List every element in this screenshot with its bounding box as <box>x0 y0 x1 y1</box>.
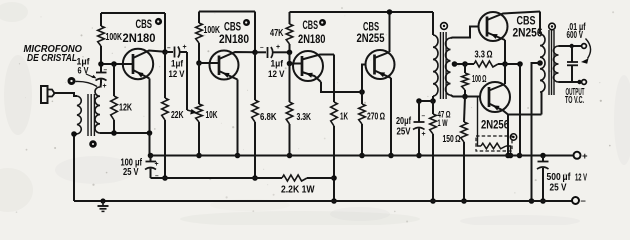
ground rail C <box>74 200 572 202</box>
svg-text:2N255: 2N255 <box>357 33 385 45</box>
svg-text:CBS: CBS <box>363 22 379 34</box>
junction dot 150ohm rail C <box>461 198 467 204</box>
svg-text:TO V.C.: TO V.C. <box>565 95 584 106</box>
resistor 3.3ohm <box>465 63 474 65</box>
base wire Q3 <box>290 63 303 65</box>
junction dot 100K-base <box>98 61 104 67</box>
junction dot pot bottom rail A <box>196 153 202 159</box>
junction dot 1K rail B <box>331 175 337 181</box>
collector wire Q4 up to rail <box>389 12 391 52</box>
emitter wire Q3 <box>321 82 362 92</box>
resistor 3.3K <box>289 64 291 103</box>
transistor Q3 2N180 <box>293 51 323 81</box>
resistor 2.2K 1W <box>282 175 307 181</box>
svg-text:+: + <box>183 44 187 51</box>
svg-text:1μf: 1μf <box>271 58 284 69</box>
collector wire Q5 to primary top <box>539 12 541 35</box>
resistor R1 100K <box>100 13 102 26</box>
junction dot CT rail C <box>529 198 535 204</box>
svg-text:100K: 100K <box>204 25 221 36</box>
svg-text:20μf: 20μf <box>396 116 411 127</box>
coupling capacitor 1uf 12V stage1-2 <box>165 51 173 53</box>
transistor Q2 2N180 <box>210 51 239 80</box>
junction dot 47ohm rail C <box>430 198 436 204</box>
svg-text:1K: 1K <box>340 112 348 123</box>
svg-text:–: – <box>167 45 171 52</box>
svg-text:22K: 22K <box>171 110 184 121</box>
svg-text:25 V: 25 V <box>123 167 139 178</box>
top rail stage 1 <box>101 12 165 14</box>
capacitor 1uf 6V input electrolytic <box>100 64 102 72</box>
transformer T2 primary winding <box>433 35 438 96</box>
wire secondary top to coupling cap <box>100 83 103 88</box>
capacitor 100uf 25V <box>150 156 152 162</box>
svg-text:2N256: 2N256 <box>513 28 543 40</box>
junction dot 3.3K rail A <box>287 153 293 159</box>
junction dot collector node Q1 <box>162 49 168 55</box>
transistor Q1 2N180 <box>123 49 153 79</box>
capacitor 20uf 25V <box>418 101 420 122</box>
wire T2 primary bottom <box>432 96 434 101</box>
resistor 47ohm 1W <box>432 101 434 114</box>
top rail stages 3-4 <box>290 11 434 13</box>
resistor 22K <box>164 52 166 98</box>
output transformer secondary winding <box>554 46 559 82</box>
junction dot Q6 emitter rail A <box>505 153 511 159</box>
svg-text:25V: 25V <box>397 127 411 138</box>
svg-text:2N180: 2N180 <box>219 34 249 46</box>
svg-text:12 V: 12 V <box>575 173 587 184</box>
junction dot base Q2 <box>196 60 202 66</box>
svg-text:600 V: 600 V <box>567 30 584 41</box>
junction dot 20uf rail A <box>416 153 422 159</box>
resistor 100K stage2 <box>198 12 200 24</box>
footnote marker stage1 <box>155 18 162 25</box>
footnote marker stage2 <box>243 19 250 26</box>
svg-text:+: + <box>103 83 107 90</box>
secondary bottom wire to output terminal <box>559 81 582 83</box>
transformer T1 secondary winding <box>95 87 100 133</box>
wire T2 secondary bottom to Q6 base <box>451 95 481 97</box>
coupling capacitor 1uf 12V stage2-3 <box>255 51 266 53</box>
wire to 20uf cap <box>419 100 433 102</box>
wire up to output transformer primary bottom <box>541 92 543 115</box>
svg-text:2N180: 2N180 <box>123 33 156 45</box>
junction dot 100ohm top <box>462 61 468 67</box>
svg-text:CBS: CBS <box>303 20 319 32</box>
capacitor 500uf 25V <box>540 153 546 159</box>
svg-text:1 W: 1 W <box>438 117 448 128</box>
wire emitter node down to rail A <box>149 133 151 156</box>
resistor 47K <box>289 12 291 24</box>
resistor 150ohm <box>464 97 465 123</box>
top rail stage 2 <box>199 11 255 13</box>
junction dot output CT <box>537 60 543 66</box>
emitter wire Q4 down <box>390 78 392 156</box>
output transformer core <box>548 30 550 95</box>
footnote marker thermistor <box>510 134 516 140</box>
capacitor .01uf 600V <box>571 46 573 62</box>
svg-text:150 Ω: 150 Ω <box>443 134 461 145</box>
junction dot rail A left end <box>148 153 154 159</box>
wire plug tip to transformer primary top <box>54 93 77 96</box>
junction dot x520 rail A <box>517 153 523 159</box>
center tap wire <box>455 63 466 65</box>
junction dot 270 rail A <box>359 153 365 159</box>
svg-text:10K: 10K <box>206 110 218 121</box>
wire output node y114 <box>508 114 542 116</box>
ground symbol <box>100 198 105 203</box>
junction dot cap node stage3 <box>287 50 293 56</box>
transistor Q5 2N256 <box>479 12 508 41</box>
transformer T1 primary winding <box>77 96 81 134</box>
svg-text:100K: 100K <box>106 32 123 43</box>
svg-text:25 V: 25 V <box>550 183 567 194</box>
collector wire Q6 up <box>504 64 506 84</box>
svg-text:CBS: CBS <box>136 19 153 31</box>
rail B right segment <box>307 177 334 179</box>
junction dot 500uf rail C <box>540 198 546 204</box>
svg-text:–: – <box>104 67 108 74</box>
footnote marker T2 <box>441 23 448 30</box>
junction dot collector Q2 <box>252 50 258 56</box>
svg-text:3.3 Ω: 3.3 Ω <box>475 50 493 61</box>
microphone jack plug <box>41 86 48 103</box>
thermistor in dashed box <box>476 136 512 151</box>
resistor 270 ohm <box>361 92 363 104</box>
junction dot T2 center tap <box>452 61 458 67</box>
junction dot Q5 emitter Q6 collector node <box>502 61 508 67</box>
svg-text:+: + <box>582 151 588 162</box>
resistor 12K <box>113 64 115 96</box>
transformer T2 core <box>440 32 442 99</box>
svg-text:12 V: 12 V <box>169 68 186 79</box>
wire T2 secondary top to Q5 base <box>451 27 479 39</box>
output transformer primary winding <box>540 34 545 92</box>
node marker below T1 secondary <box>89 140 97 148</box>
wire top rail to T2 primary <box>432 12 434 35</box>
svg-text:12K: 12K <box>119 103 132 114</box>
junction dot 1K rail C <box>331 198 337 204</box>
svg-text:–: – <box>422 113 426 120</box>
collector leg stage2 <box>254 12 256 53</box>
emitter wire Q5 down <box>504 40 506 64</box>
svg-text:+: + <box>422 131 426 138</box>
svg-text:+: + <box>155 161 159 168</box>
arrow from label to capacitor <box>586 39 591 59</box>
junction dot 6.8K rail B <box>252 175 258 181</box>
junction dot 22K on rail B <box>162 175 168 181</box>
junction dot Q2 emitter rail A <box>235 153 241 159</box>
junction dot thermistor rail A <box>508 153 514 159</box>
junction dot x520 <box>517 61 523 67</box>
svg-text:+: + <box>276 44 280 51</box>
wire cap to volume pot wiper <box>186 52 188 110</box>
junction dot emitter-bottom wire <box>147 130 153 136</box>
junction dot primary-bottom wire <box>71 131 77 137</box>
svg-text:CBS: CBS <box>224 22 241 34</box>
resistor 6.8K <box>254 52 256 100</box>
supply + terminal <box>574 152 581 159</box>
transformer T1 core <box>87 94 89 136</box>
wire node to x520 <box>505 63 520 65</box>
svg-text:270 Ω: 270 Ω <box>367 112 385 123</box>
svg-text:DE CRISTAL: DE CRISTAL <box>27 53 77 64</box>
emitter wire Q6 down to rail A <box>507 115 509 156</box>
junction dot base-12K <box>111 61 117 67</box>
svg-text:CBS: CBS <box>517 16 536 28</box>
junction dot base Q3 <box>287 61 293 67</box>
svg-text:47K: 47K <box>270 28 284 39</box>
collector leg x165 <box>164 13 166 52</box>
supply - terminal <box>572 197 579 204</box>
leader line from marker to cap node <box>76 81 98 86</box>
junction dot Q4 collector rail <box>387 9 393 15</box>
svg-text:–: – <box>581 195 586 206</box>
pot wiper arrow <box>187 110 192 111</box>
svg-text:6 V: 6 V <box>78 65 90 76</box>
transformer T2 secondary winding <box>446 38 451 95</box>
svg-text:2N180: 2N180 <box>298 34 326 46</box>
junction dot T2 primary bottom <box>430 98 436 104</box>
svg-text:500 μf: 500 μf <box>547 172 572 183</box>
junction dot 12K bottom <box>111 130 117 136</box>
secondary top wire to output terminal <box>559 45 582 47</box>
stage1 bottom wire <box>100 132 150 134</box>
junction dot 100ohm bottom <box>462 94 468 100</box>
base wire stage1 <box>101 63 133 65</box>
junction dot 20uf top <box>416 98 422 104</box>
svg-text:2.2K 1W: 2.2K 1W <box>281 184 315 195</box>
svg-text:3.3K: 3.3K <box>297 112 312 123</box>
footnote marker output transformer <box>549 23 556 30</box>
potentiometer 10K <box>198 63 200 104</box>
svg-text:6.8K: 6.8K <box>260 112 277 123</box>
transistor Q6 2N256 <box>480 82 510 112</box>
base wire Q4 <box>362 65 366 93</box>
junction dot Q4 emitter rail A <box>388 153 394 159</box>
svg-text:100 Ω: 100 Ω <box>472 74 487 85</box>
svg-text:1μf: 1μf <box>171 58 184 69</box>
output terminal top <box>582 44 587 49</box>
footnote marker stage3 <box>319 19 326 26</box>
emitter wire Q1 down <box>149 79 151 134</box>
transistor Q4 2N255 <box>366 50 395 79</box>
center tap wire to ground <box>532 63 541 201</box>
collector leg Q3 with resistor 1K <box>333 55 335 103</box>
emitter wire Q2 down <box>237 80 239 156</box>
rail B <box>151 177 283 179</box>
junction dot Q3 emitter to Q4 base <box>359 89 365 95</box>
wire primary bottom down to ground rail <box>74 134 77 201</box>
wire x520 down to rail A <box>519 64 521 156</box>
base wire Q2 <box>199 62 219 64</box>
svg-text:12 V: 12 V <box>268 68 285 79</box>
rail A plus 12V <box>151 155 574 157</box>
wire 47K to base Q3 <box>289 52 291 63</box>
output terminal bottom <box>582 80 587 85</box>
resistor 100ohm <box>464 64 466 73</box>
svg-text:–: – <box>260 44 264 51</box>
svg-text:2N256: 2N256 <box>481 120 509 132</box>
node marker 2 mic input <box>68 77 76 85</box>
